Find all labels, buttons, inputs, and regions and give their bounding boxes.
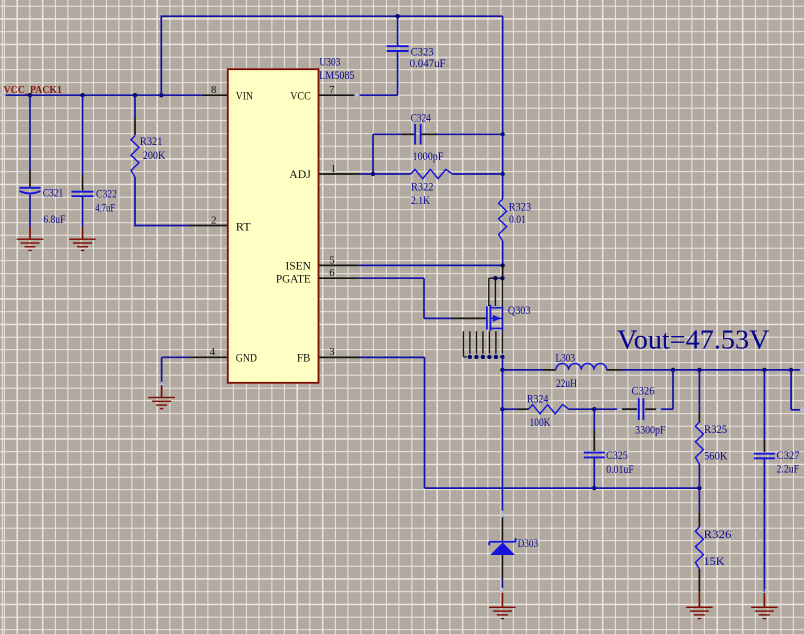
- node junction C324 right: [500, 132, 504, 136]
- svg-text:VCC_PACK1: VCC_PACK1: [4, 85, 63, 96]
- ground under C327: [751, 593, 778, 620]
- Q303 source pins bundle: [463, 331, 502, 357]
- ground under GND pin: [148, 385, 175, 409]
- node junction right branch: [789, 368, 793, 372]
- node junction C327 top: [762, 368, 766, 372]
- svg-text:1000pF: 1000pF: [413, 150, 444, 163]
- grip at IC ground: [158, 382, 164, 388]
- pin 5 stub: [319, 254, 359, 266]
- wire VCC_PACK1 rail: [2, 94, 203, 96]
- wire C325 upper lead: [593, 409, 595, 451]
- node junction C325 top: [592, 407, 596, 411]
- ground under R326: [686, 607, 713, 620]
- capacitor C325: [584, 449, 634, 476]
- svg-text:C324: C324: [411, 112, 431, 125]
- svg-text:22uH: 22uH: [556, 377, 578, 390]
- svg-text:Q303: Q303: [508, 304, 531, 317]
- wire C321 branch: [29, 95, 31, 187]
- svg-text:R322: R322: [411, 180, 434, 193]
- wire ISEN to drain node: [359, 264, 503, 266]
- Q303 gate pin stub: [452, 317, 487, 319]
- wire R326 lower lead: [698, 569, 700, 607]
- wire right rail mid: [502, 134, 504, 174]
- svg-text:3: 3: [329, 346, 334, 358]
- node junction ADJ/C324: [371, 172, 375, 176]
- source junction dots: [468, 355, 505, 359]
- ground under C322: [69, 227, 96, 251]
- wire output left segment: [502, 369, 556, 371]
- wire R321 bottom to RT pin: [135, 177, 189, 226]
- svg-text:ADJ: ADJ: [289, 169, 311, 181]
- svg-text:0.01: 0.01: [509, 213, 526, 226]
- svg-text:C326: C326: [632, 385, 655, 398]
- svg-text:C325: C325: [606, 449, 628, 462]
- transistor Q303: [487, 304, 531, 331]
- svg-text:15K: 15K: [704, 555, 726, 568]
- text U303 designator: [319, 56, 355, 82]
- svg-text:R321: R321: [140, 135, 163, 148]
- wire output mid segment: [607, 369, 804, 371]
- node junction FB/R326: [697, 486, 701, 490]
- wire C322 branch: [82, 95, 84, 191]
- resistor R326: [695, 527, 731, 569]
- svg-text:4: 4: [210, 346, 216, 358]
- svg-text:FB: FB: [297, 352, 311, 364]
- wire R322 to right rail: [452, 173, 502, 175]
- svg-text:L303: L303: [556, 351, 576, 364]
- wire C327 upper lead: [763, 370, 765, 452]
- resistor R322: [411, 169, 453, 207]
- svg-text:GND: GND: [236, 352, 257, 364]
- wire R325 lower lead: [698, 464, 700, 488]
- svg-text:6.8uF: 6.8uF: [43, 213, 65, 226]
- node junction R322 right: [500, 172, 504, 176]
- svg-text:C322: C322: [96, 187, 117, 200]
- wire C324 left leads: [373, 134, 414, 174]
- svg-text:2.1K: 2.1K: [411, 194, 431, 207]
- node junction at C322 tap: [80, 93, 84, 97]
- capacitor C326: [632, 385, 667, 437]
- resistor R321: [131, 135, 166, 177]
- svg-text:100K: 100K: [530, 416, 552, 429]
- svg-text:LM5085: LM5085: [319, 69, 355, 82]
- svg-text:6: 6: [329, 267, 335, 279]
- pin 6 stub: [319, 267, 359, 279]
- wire R324 to C325 node: [569, 408, 594, 410]
- grip at wire left end: [0, 93, 5, 98]
- svg-text:1: 1: [331, 163, 336, 175]
- svg-text:PGATE: PGATE: [276, 273, 311, 285]
- svg-text:VIN: VIN: [236, 90, 253, 102]
- wire C323 lower lead to VCC: [359, 51, 398, 95]
- node junction at C323 on top rail: [395, 14, 399, 18]
- svg-text:R324: R324: [527, 393, 548, 406]
- svg-text:7: 7: [329, 84, 335, 96]
- wire top rail: [161, 15, 503, 17]
- svg-text:200K: 200K: [143, 149, 166, 162]
- svg-text:8: 8: [211, 84, 216, 96]
- wire PGATE route: [359, 278, 452, 318]
- svg-text:C327: C327: [777, 449, 800, 462]
- wire C325 lower lead: [593, 458, 595, 489]
- svg-text:0.047uF: 0.047uF: [410, 57, 447, 70]
- grip at D303 ground: [499, 588, 505, 594]
- grip at C327 ground: [762, 589, 768, 595]
- node junction C326 top: [671, 368, 675, 372]
- wire D303 lower lead: [501, 555, 503, 593]
- grip at D303 top: [499, 511, 505, 517]
- capacitor C323: [387, 45, 447, 69]
- wire C326 right lead: [645, 370, 673, 409]
- wire R325 upper lead: [698, 370, 700, 423]
- Q303 drain pins bundle: [489, 276, 505, 306]
- capacitor C321 (polarized): [20, 187, 66, 226]
- capacitor C322: [72, 187, 118, 214]
- svg-text:R323: R323: [509, 201, 532, 214]
- svg-text:RT: RT: [236, 222, 251, 234]
- wire R324 left lead: [502, 408, 528, 410]
- svg-text:2.2uF: 2.2uF: [777, 462, 800, 475]
- svg-text:VCC: VCC: [290, 90, 311, 102]
- capacitor C324: [411, 112, 444, 163]
- resistor R325: [695, 422, 728, 464]
- svg-text:D303: D303: [518, 537, 539, 550]
- svg-text:560K: 560K: [704, 449, 728, 462]
- node junction at C321 tap: [28, 93, 32, 97]
- wire ADJ to R322: [373, 173, 411, 175]
- wire C324 right lead: [422, 133, 503, 135]
- ground under C321: [17, 227, 44, 251]
- wire R323 bottom lead: [502, 241, 504, 265]
- wire GND pin route: [162, 357, 190, 385]
- svg-text:2: 2: [211, 215, 216, 227]
- grip marks at C326 pins: [617, 407, 661, 412]
- ground under D303: [489, 593, 515, 620]
- pin 8 stub: [203, 84, 229, 96]
- net label VCC_PACK1: [4, 85, 63, 96]
- wire D303 upper lead: [501, 370, 503, 541]
- inductor L303: [556, 351, 607, 390]
- svg-text:5: 5: [329, 254, 334, 266]
- node junction at top-rail riser: [159, 93, 163, 97]
- op-amp U303 body (LM5085 regulator): [228, 69, 319, 383]
- node junction ISEN/R323/drain: [500, 263, 504, 267]
- svg-text:R325: R325: [704, 423, 727, 436]
- wire C327 lower lead: [763, 458, 765, 592]
- diode D303 (schottky): [489, 537, 538, 555]
- wire C321 lower lead: [29, 195, 31, 228]
- pin 1 stub: [319, 163, 360, 175]
- grip at right edge exits: [800, 367, 804, 412]
- resistor R324: [527, 393, 569, 429]
- svg-text:3300pF: 3300pF: [635, 423, 666, 436]
- svg-text:ISEN: ISEN: [286, 261, 311, 273]
- wire right rail to R323: [502, 174, 504, 199]
- svg-text:R326: R326: [704, 528, 732, 541]
- node junction R324 left: [500, 407, 504, 411]
- wire riser to top rail: [160, 16, 162, 95]
- capacitor C327: [754, 449, 800, 475]
- wire drain node drop: [502, 265, 504, 278]
- svg-text:U303: U303: [319, 56, 340, 69]
- pin 2 stub: [189, 215, 228, 227]
- wire right rail upper: [502, 16, 504, 134]
- text Vout: [617, 325, 770, 355]
- svg-text:C321: C321: [43, 187, 64, 200]
- pin 4 stub: [189, 346, 229, 358]
- node junction source/output: [500, 368, 504, 372]
- wire C325node to C326: [594, 408, 637, 410]
- node junction R325 top: [697, 368, 701, 372]
- wire source to output node: [501, 357, 503, 370]
- pin 3 stub: [319, 346, 360, 358]
- grip near pin7 wire end: [354, 93, 359, 98]
- svg-text:0.01uF: 0.01uF: [606, 463, 634, 476]
- svg-text:4.7uF: 4.7uF: [95, 201, 115, 214]
- wire right branch exit: [791, 370, 804, 410]
- svg-text:Vout=47.53V: Vout=47.53V: [617, 325, 770, 355]
- wire FB route: [360, 357, 700, 488]
- wire C323 upper lead: [397, 16, 399, 45]
- wire R326 upper lead: [698, 488, 700, 527]
- wire ADJ to junction: [359, 173, 373, 175]
- node junction C325 bottom: [592, 486, 596, 490]
- wire C322 lower lead: [82, 196, 84, 227]
- resistor R323: [499, 199, 532, 241]
- wire R321 top lead: [134, 95, 136, 135]
- pin 7 stub: [319, 84, 359, 96]
- node junction at R321 tap: [133, 93, 137, 97]
- grip marks at source junctions: [467, 354, 506, 360]
